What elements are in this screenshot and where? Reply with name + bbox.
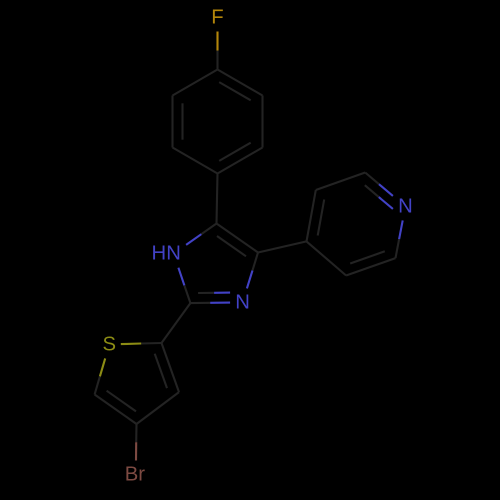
bond C5a-C6a bbox=[261, 96, 263, 148]
double bond C6a=C1a bbox=[218, 143, 263, 174]
bond F-C4a bbox=[216, 32, 218, 70]
bond C3c-C4c bbox=[137, 392, 180, 424]
bond N1-C2 bbox=[178, 268, 190, 303]
bond C4a-C3a bbox=[173, 70, 218, 96]
bond S-C5c bbox=[95, 358, 106, 394]
bond C2a-C1a bbox=[173, 148, 218, 174]
bond C2-C2c (imidazole to thiophene) bbox=[162, 303, 191, 343]
bond N3-C4 bbox=[247, 253, 258, 289]
bond C4c-Br bbox=[135, 424, 138, 461]
svg-text:Br: Br bbox=[125, 464, 146, 486]
double bond C3b=N4b bbox=[365, 173, 393, 209]
double bond C2=N3 bbox=[190, 293, 230, 304]
double bond C3a=C2a bbox=[173, 96, 183, 148]
bond C6b-C1b bbox=[307, 241, 347, 275]
double bond C5=C4 imidazole bbox=[217, 224, 259, 257]
bond C5-N1 bbox=[186, 224, 216, 245]
svg-text:S: S bbox=[103, 333, 117, 355]
bond C4-C1b (imidazole to pyridine) bbox=[258, 241, 307, 252]
bond N4b-C5b bbox=[396, 220, 403, 258]
double bond C4c=C5c bbox=[95, 391, 137, 424]
bond C1a-C5 (phenyl to imidazole) bbox=[217, 174, 218, 224]
double bond C1b=C2b bbox=[307, 190, 325, 241]
double bond C5b=C6b bbox=[346, 251, 395, 275]
double bond C2c=C3c bbox=[155, 343, 179, 392]
svg-text:N: N bbox=[235, 291, 250, 313]
svg-text:F: F bbox=[211, 7, 223, 29]
double bond C4a=C5a bbox=[218, 70, 263, 101]
bond C2c-S bbox=[121, 343, 162, 344]
bond C2b-C3b bbox=[316, 173, 365, 191]
svg-text:N: N bbox=[398, 195, 413, 217]
svg-text:N: N bbox=[166, 243, 181, 265]
svg-text:H: H bbox=[151, 243, 166, 265]
